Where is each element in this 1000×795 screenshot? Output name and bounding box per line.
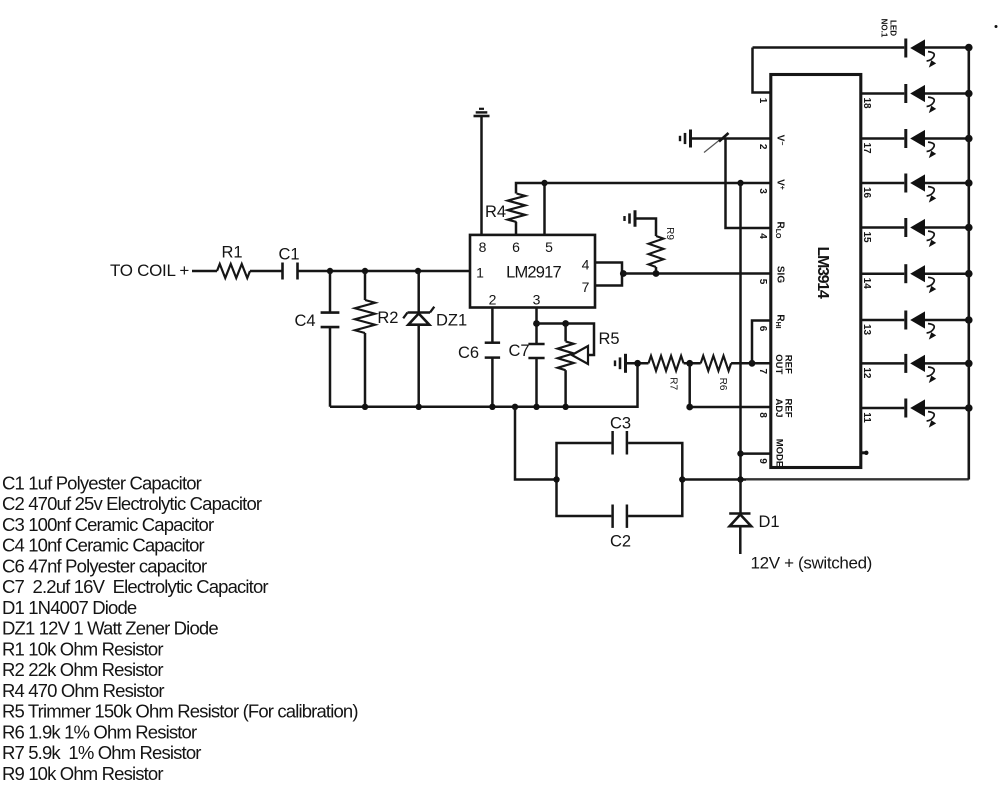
resistor R9 <box>649 236 664 267</box>
wire LED 16 to bus <box>925 182 969 185</box>
svg-text:NO.1: NO.1 <box>880 19 889 38</box>
wire ground to R9 <box>635 219 656 237</box>
node bus LED NO.1 <box>965 44 973 52</box>
node junction C4 <box>327 268 333 274</box>
node junction R2 <box>362 268 368 274</box>
svg-text:C3 100nf Ceramic Capacitor: C3 100nf Ceramic Capacitor <box>2 514 214 535</box>
svg-text:ADJ: ADJ <box>773 398 784 417</box>
svg-text:3: 3 <box>533 292 541 308</box>
wire LED 12 to bus <box>925 362 969 365</box>
node bus 12 <box>965 360 973 368</box>
wire pin 5 up <box>543 183 546 235</box>
node SIG takeoff <box>620 270 627 277</box>
svg-text:R4: R4 <box>485 203 506 221</box>
svg-text:R1 10k Ohm Resistor: R1 10k Ohm Resistor <box>2 638 163 659</box>
wire pin 12 to LED <box>861 362 904 365</box>
wire pin 3 down <box>535 308 538 345</box>
svg-text:TO COIL +: TO COIL + <box>110 261 189 280</box>
wire tap down to block <box>515 407 557 480</box>
svg-text:16: 16 <box>861 187 872 199</box>
svg-text:6: 6 <box>512 239 520 255</box>
svg-text:11: 11 <box>861 412 872 423</box>
wire ground to pin 2 <box>691 137 771 140</box>
wire top net to LM3914 pin 3 <box>545 182 771 185</box>
ground at pin 2 <box>689 130 692 148</box>
junction C6 bottom <box>489 404 495 410</box>
capacitor C4 <box>329 271 332 313</box>
node bus 11 <box>965 404 973 412</box>
diode D1 <box>739 480 742 514</box>
wire pin 18 to LED <box>861 92 904 95</box>
resistor R2 <box>364 271 367 300</box>
ground above pin 8 <box>474 115 490 118</box>
svg-text:18: 18 <box>861 97 872 109</box>
resistor R6 <box>701 356 731 371</box>
node R5 top <box>562 320 569 327</box>
junction C2C3 tap <box>512 404 518 410</box>
op-amp U1 LM2917 box <box>470 235 595 308</box>
svg-text:4: 4 <box>582 256 590 272</box>
svg-text:C7 2.2uf 16V Electrolytic Ca: C7 2.2uf 16V Electrolytic Capacitor <box>2 576 268 597</box>
svg-text:OUT: OUT <box>773 354 784 374</box>
node bus 14 <box>965 270 973 278</box>
svg-text:6: 6 <box>757 326 768 332</box>
wire pin 16 to LED <box>861 182 904 185</box>
node R4/pin5 <box>541 180 547 186</box>
svg-text:LED: LED <box>889 20 898 36</box>
wire LED NO.1 to bus <box>925 46 969 49</box>
svg-text:LM3914: LM3914 <box>814 247 831 299</box>
stray mark <box>995 25 998 28</box>
zener diode DZ1 <box>417 271 420 313</box>
node bus 15 <box>965 224 973 232</box>
svg-text:SIG: SIG <box>774 266 785 283</box>
wire LED 17 to bus <box>925 137 969 140</box>
wire RHI bracket <box>752 321 771 364</box>
node bus 17 <box>965 135 973 143</box>
capacitor C1 <box>281 263 284 280</box>
capacitor C3 block top <box>557 443 612 480</box>
node MODE branch <box>737 450 743 456</box>
node block left <box>553 476 559 482</box>
IC U2 LM3914 box <box>771 75 861 468</box>
svg-text:7: 7 <box>757 369 768 375</box>
svg-text:R6: R6 <box>717 378 728 391</box>
wire R6 to pin 7 <box>731 362 771 365</box>
svg-text:R5 Trimmer 150k Ohm Resistor (: R5 Trimmer 150k Ohm Resistor (For calibr… <box>2 701 358 722</box>
junction R2 bottom <box>362 404 368 410</box>
svg-text:D1: D1 <box>759 513 780 531</box>
svg-text:9: 9 <box>757 458 768 464</box>
node block right <box>679 476 685 482</box>
LED at pin 12 <box>904 354 907 373</box>
node junction DZ1 <box>415 268 421 274</box>
svg-text:1: 1 <box>476 265 484 281</box>
node ground/R7 <box>634 360 641 367</box>
wire input to R1 <box>192 270 217 273</box>
svg-text:DZ1 12V 1 Watt Zener Diode: DZ1 12V 1 Watt Zener Diode <box>2 618 218 639</box>
svg-text:17: 17 <box>861 142 872 154</box>
svg-text:R2 22k Ohm Resistor: R2 22k Ohm Resistor <box>2 659 163 680</box>
wire R7 to R6 <box>684 362 701 365</box>
svg-text:5: 5 <box>545 239 553 255</box>
svg-text:R2: R2 <box>377 309 398 327</box>
svg-text:C6 47nf Polyester capacitor: C6 47nf Polyester capacitor <box>2 555 207 576</box>
LED at pin 18 <box>904 84 907 103</box>
wire SIG line <box>622 272 771 275</box>
svg-text:MODE: MODE <box>773 439 784 468</box>
svg-text:C1 1uf Polyester Capacitor: C1 1uf Polyester Capacitor <box>2 472 202 493</box>
svg-text:C7: C7 <box>509 342 530 360</box>
pin 1 stub <box>753 48 771 93</box>
LED NO.1 <box>904 39 907 58</box>
node supply junction <box>737 476 743 482</box>
svg-text:12: 12 <box>861 367 872 379</box>
svg-text:7: 7 <box>582 279 590 295</box>
label LED NO.1 <box>880 19 898 38</box>
svg-text:8: 8 <box>479 239 487 255</box>
svg-text:R9: R9 <box>664 227 675 240</box>
ground at R9 <box>634 210 637 227</box>
ground at R7 <box>624 354 627 373</box>
resistor R4 <box>515 222 518 235</box>
node bus 18 <box>965 90 973 98</box>
wire pin 1 to LED NO.1 <box>753 46 905 49</box>
wire LED 13 to bus <box>925 319 969 322</box>
LED at pin 13 <box>904 311 907 330</box>
wire pin 14 to LED <box>861 272 904 275</box>
svg-text:5: 5 <box>757 279 768 285</box>
wire pin 17 to LED <box>861 137 904 140</box>
wire pin 2 down <box>491 308 494 343</box>
svg-text:DZ1: DZ1 <box>436 312 467 330</box>
wire pin 11 to LED <box>861 407 904 410</box>
wire block to supply node <box>682 478 746 481</box>
svg-text:C2 470uf 25v Electrolytic Capa: C2 470uf 25v Electrolytic Capacitor <box>2 493 262 514</box>
node R9 bottom <box>653 270 660 277</box>
junction R5 bottom <box>562 404 568 410</box>
node R7/R6 <box>686 360 693 367</box>
node bus 13 <box>965 316 973 324</box>
wire LED 11 to bus <box>925 407 969 410</box>
pin 10 stub <box>861 451 865 454</box>
capacitor C7 <box>528 343 544 346</box>
wire pin 13 to LED <box>861 319 904 322</box>
wire pins 4-7 bracket <box>595 263 622 286</box>
svg-text:C6: C6 <box>458 344 479 362</box>
capacitor C6 <box>485 341 500 344</box>
resistor R1 <box>217 264 250 278</box>
svg-text:C4: C4 <box>295 312 316 330</box>
LED at pin 15 <box>904 218 907 237</box>
node ref adj corner <box>686 404 693 411</box>
svg-text:8: 8 <box>757 412 768 418</box>
svg-text:D1 1N4007 Diode: D1 1N4007 Diode <box>2 597 137 618</box>
label REF OUT <box>773 354 794 374</box>
wire MODE stub <box>741 452 771 455</box>
node R6/pin7 <box>749 360 756 367</box>
wire ground to R7 <box>626 362 649 365</box>
wire pin 8 to ground <box>480 116 483 235</box>
wire R1 to C1 <box>250 270 282 273</box>
svg-text:15: 15 <box>861 231 872 243</box>
svg-text:R9 10k Ohm Resistor: R9 10k Ohm Resistor <box>2 763 163 784</box>
node V+ branch <box>737 180 743 186</box>
wire pin 15 to LED <box>861 226 904 229</box>
svg-text:LM2917: LM2917 <box>506 264 561 282</box>
LED at pin 11 <box>904 399 907 418</box>
svg-text:C3: C3 <box>610 415 631 433</box>
svg-text:R4 470 Ohm Resistor: R4 470 Ohm Resistor <box>2 680 164 701</box>
stray stroke at pin 2 wire <box>704 136 725 153</box>
svg-text:2: 2 <box>489 292 497 308</box>
wire to R5 top <box>537 322 566 325</box>
wire long V+ vertical <box>739 183 742 480</box>
junction C7 bottom <box>533 404 539 410</box>
wire LED 14 to bus <box>925 272 969 275</box>
ground rail wire <box>330 363 638 407</box>
svg-text:1: 1 <box>757 98 768 104</box>
svg-text:12V + (switched): 12V + (switched) <box>751 554 873 573</box>
trimmer R5 wiper <box>566 324 594 356</box>
svg-text:C4 10nf Ceramic Capacitor: C4 10nf Ceramic Capacitor <box>2 535 205 556</box>
svg-text:13: 13 <box>861 324 872 336</box>
svg-text:R7 5.9k 1% Ohm Resistor: R7 5.9k 1% Ohm Resistor <box>2 742 201 763</box>
label REF ADJ <box>773 398 794 417</box>
junction DZ1 bottom <box>416 404 422 410</box>
svg-text:R7: R7 <box>667 377 678 390</box>
wire V- to RLO vertical <box>726 139 771 229</box>
LED supply bus <box>967 48 970 480</box>
wire ref adj line <box>690 363 771 407</box>
capacitor C2 block bottom <box>557 480 612 517</box>
svg-text:14: 14 <box>861 278 872 290</box>
LED at pin 16 <box>904 174 907 193</box>
wire LED 15 to bus <box>925 226 969 229</box>
LED at pin 17 <box>904 129 907 148</box>
node C7 top <box>533 320 540 327</box>
svg-text:4: 4 <box>757 233 768 239</box>
trimmer R5 body <box>564 324 567 342</box>
LED at pin 14 <box>904 264 907 283</box>
wire LED 18 to bus <box>925 92 969 95</box>
svg-text:R6 1.9k 1% Ohm Resistor: R6 1.9k 1% Ohm Resistor <box>2 721 197 742</box>
svg-text:R1: R1 <box>222 244 243 262</box>
svg-text:3: 3 <box>757 188 768 194</box>
svg-text:2: 2 <box>757 144 768 150</box>
wire C1 to U1 pin 1 <box>298 270 471 273</box>
svg-text:C1: C1 <box>279 246 300 264</box>
wire supply node to LED bus <box>746 478 969 480</box>
node bus 16 <box>965 179 973 187</box>
resistor R7 <box>649 356 684 371</box>
svg-text:R5: R5 <box>599 330 620 348</box>
svg-text:C2: C2 <box>610 533 631 551</box>
